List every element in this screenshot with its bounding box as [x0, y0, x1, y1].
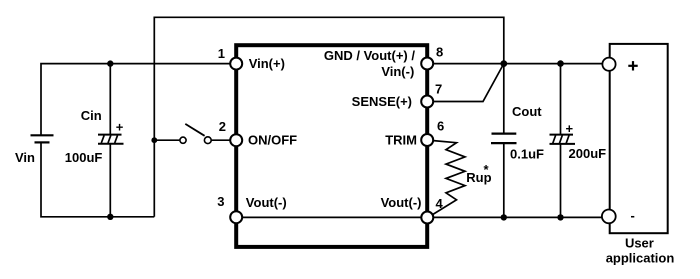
node: 200uF bottom junction — [557, 214, 563, 220]
node: 200uF top junction — [557, 60, 564, 67]
wire: Cout top lead — [503, 64, 505, 134]
svg-text:200uF: 200uF — [569, 146, 607, 161]
pin 6 TRIM — [421, 134, 433, 146]
wire: 200uF bottom lead — [560, 144, 562, 218]
svg-text:+: + — [116, 119, 124, 134]
svg-text:8: 8 — [436, 45, 443, 60]
wire: battery negative lead to bottom rail — [41, 142, 154, 217]
svg-text:7: 7 — [435, 82, 442, 97]
wire: pin 3 to pin 4 Vout(-) link — [236, 216, 427, 218]
wire: pin 4 to user application - — [427, 216, 602, 218]
svg-text:6: 6 — [437, 119, 444, 134]
wire: pin 7 SENSE(+) to output node — [427, 64, 504, 102]
wire: Cin bottom lead — [109, 144, 111, 217]
svg-text:Cin: Cin — [81, 108, 102, 123]
converter module box U1 — [236, 45, 427, 247]
wire: switch to pin 2 — [211, 139, 230, 141]
user application box — [610, 44, 668, 233]
node: Cin top junction — [107, 60, 113, 66]
svg-text:1: 1 — [218, 46, 225, 61]
svg-text:GND / Vout(+) /: GND / Vout(+) / — [324, 48, 416, 63]
wire: Vin(+) rail from source to pin 1 — [41, 64, 230, 136]
svg-text:2: 2 — [219, 119, 226, 134]
svg-text:Vout(-): Vout(-) — [381, 195, 422, 210]
wire: 200uF top lead — [560, 64, 562, 135]
svg-text:application: application — [606, 250, 675, 265]
wire: Cin top lead — [109, 64, 111, 135]
svg-text:+: + — [566, 121, 574, 136]
pin 4 Vout(-) — [421, 212, 433, 224]
pin 2 ON/OFF — [230, 134, 242, 146]
terminal + of user application — [602, 58, 615, 71]
svg-text:Cout: Cout — [512, 104, 542, 119]
svg-text:User: User — [625, 236, 654, 251]
svg-text:3: 3 — [217, 194, 224, 209]
svg-text:4: 4 — [436, 196, 444, 211]
pin 8 GND/Vout(+)/Vin(-) — [421, 58, 433, 70]
wire: switch to left rail — [154, 139, 179, 141]
node: Cout bottom junction — [501, 214, 507, 220]
node: output top junction — [500, 60, 507, 67]
svg-text:Vout(-): Vout(-) — [246, 195, 287, 210]
svg-text:SENSE(+): SENSE(+) — [352, 94, 412, 109]
wire: pin 8 output rail to user application + — [427, 63, 602, 65]
svg-text:-: - — [631, 208, 635, 223]
node: Cin bottom junction — [107, 214, 113, 220]
svg-text:Vin: Vin — [15, 150, 35, 165]
svg-text:Vin(+): Vin(+) — [249, 56, 285, 71]
resistor Rup — [431, 141, 466, 216]
wire: top rail Vin(-) to output GND node — [154, 17, 504, 217]
capacitor Cin (polarized) — [98, 135, 124, 144]
svg-text:0.1uF: 0.1uF — [510, 147, 544, 162]
capacitor 200uF (polarized) — [550, 135, 576, 144]
svg-text:ON/OFF: ON/OFF — [248, 133, 297, 148]
pin 7 SENSE(+) — [421, 96, 433, 108]
terminal - of user application — [602, 210, 616, 224]
capacitor Cout — [491, 134, 517, 144]
svg-text:Vin(-): Vin(-) — [381, 64, 414, 79]
svg-text:TRIM: TRIM — [385, 133, 417, 148]
svg-text:100uF: 100uF — [65, 150, 103, 165]
switch S1 — [180, 124, 211, 144]
node: switch tap junction — [151, 137, 157, 143]
battery source Vin — [31, 135, 54, 142]
label plus terminal — [628, 65, 637, 67]
pin 1 Vin(+) — [230, 58, 242, 70]
wire: Cout bottom lead — [503, 143, 505, 217]
pin 3 Vout(-) — [230, 211, 242, 223]
